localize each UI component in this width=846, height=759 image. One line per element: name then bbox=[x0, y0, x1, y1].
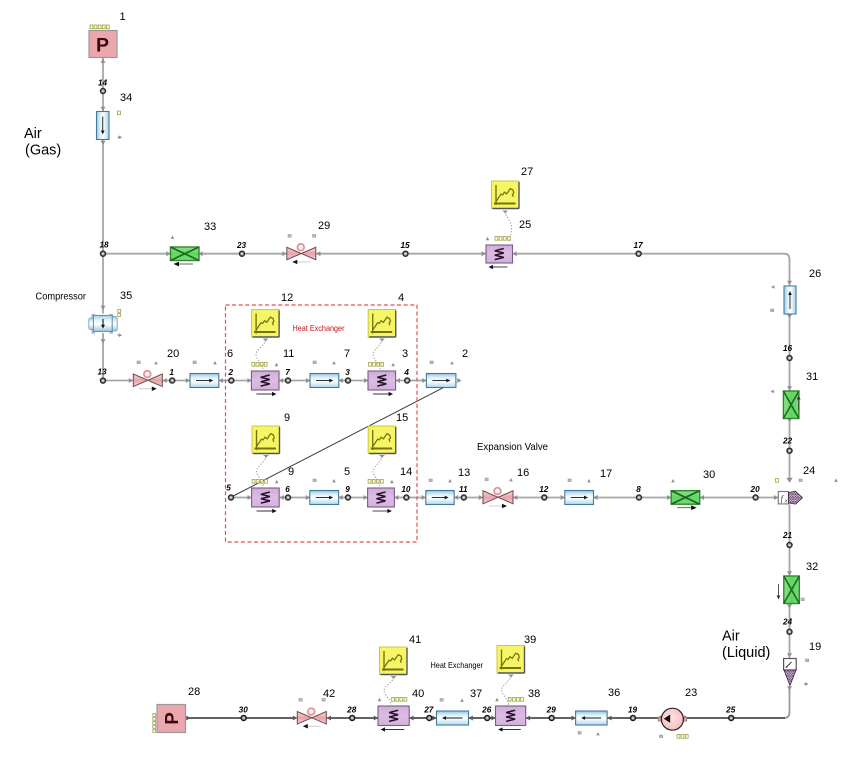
wire right column vertical bbox=[784, 315, 790, 718]
pipe 2 blue box bbox=[426, 348, 468, 388]
heater 3 purple box bbox=[368, 348, 408, 396]
node 4 bbox=[403, 368, 409, 383]
chart monitor 41 bbox=[380, 634, 422, 675]
node 8 bbox=[636, 485, 641, 500]
svg-text:13: 13 bbox=[458, 467, 470, 479]
svg-text:7: 7 bbox=[344, 348, 350, 360]
svg-text:26: 26 bbox=[481, 706, 492, 715]
svg-text:6: 6 bbox=[285, 485, 290, 494]
svg-text:30: 30 bbox=[239, 706, 249, 715]
svg-text:25: 25 bbox=[519, 219, 531, 231]
svg-text:29: 29 bbox=[546, 706, 557, 715]
dotted link 4-3 bbox=[373, 339, 384, 370]
svg-text:11: 11 bbox=[283, 348, 294, 360]
svg-text:22: 22 bbox=[782, 437, 793, 446]
svg-text:24: 24 bbox=[803, 465, 815, 477]
node 24b bbox=[782, 618, 793, 635]
node 20b bbox=[750, 485, 761, 500]
svg-text:29: 29 bbox=[318, 220, 330, 232]
node 27b bbox=[423, 706, 434, 721]
pipe 13 blue box bbox=[426, 467, 470, 505]
svg-text:12: 12 bbox=[539, 485, 549, 494]
pipe 17 blue box bbox=[565, 468, 612, 505]
svg-text:2: 2 bbox=[228, 368, 234, 377]
svg-text:36: 36 bbox=[608, 687, 620, 699]
wire port arrows bbox=[101, 59, 793, 721]
pressure source P1 bbox=[89, 11, 126, 58]
node 5 bbox=[226, 484, 233, 501]
svg-text:35: 35 bbox=[120, 290, 132, 302]
node 21 bbox=[782, 531, 793, 548]
svg-text:5: 5 bbox=[344, 466, 350, 478]
dotted link 39-38 bbox=[502, 675, 514, 705]
valve 20 bbox=[133, 348, 179, 391]
wire row1 segments bbox=[103, 380, 426, 382]
pump 23 bbox=[658, 687, 697, 738]
svg-text:13: 13 bbox=[97, 368, 107, 377]
svg-text:19: 19 bbox=[628, 706, 638, 715]
chart monitor 15 bbox=[368, 412, 408, 454]
heater 14 purple box bbox=[368, 466, 413, 513]
svg-text:40: 40 bbox=[412, 688, 424, 700]
svg-text:23: 23 bbox=[685, 687, 697, 699]
text Air (Liquid) bbox=[722, 629, 770, 662]
gas cooler 33 crossed box bbox=[171, 221, 217, 266]
node 1 bbox=[169, 368, 174, 383]
phase box 30 green crossed bbox=[671, 469, 838, 510]
svg-text:21: 21 bbox=[782, 531, 793, 540]
dotted link 12-11 bbox=[256, 339, 268, 370]
svg-text:x: x bbox=[784, 499, 788, 505]
svg-text:25: 25 bbox=[725, 706, 736, 715]
svg-text:39: 39 bbox=[524, 634, 536, 646]
svg-text:2: 2 bbox=[462, 348, 468, 360]
chart monitor 39 bbox=[497, 634, 536, 673]
node 7 bbox=[285, 368, 290, 383]
svg-text:31: 31 bbox=[806, 371, 818, 383]
svg-text:27: 27 bbox=[423, 706, 434, 715]
node 13c bbox=[97, 368, 107, 384]
chart monitor 12 bbox=[252, 292, 294, 337]
svg-text:9: 9 bbox=[345, 485, 350, 494]
node 19b bbox=[628, 706, 638, 721]
node 28b bbox=[346, 706, 357, 721]
chart monitor 4 bbox=[368, 292, 404, 337]
dotted link 9-9 bbox=[257, 456, 269, 488]
svg-text:8: 8 bbox=[636, 485, 641, 494]
svg-text:37: 37 bbox=[470, 688, 482, 700]
pressure sink P28 bbox=[153, 686, 200, 733]
svg-text:5: 5 bbox=[226, 484, 231, 493]
node 29b bbox=[546, 706, 557, 721]
pipe 37 blue box bbox=[437, 688, 483, 725]
svg-text:9: 9 bbox=[288, 466, 294, 478]
svg-text:Expansion Valve: Expansion Valve bbox=[477, 441, 548, 453]
text Air (Gas) bbox=[24, 126, 61, 159]
phase box 32 green crossed bbox=[777, 561, 819, 604]
node 17t bbox=[634, 241, 644, 256]
svg-text:34: 34 bbox=[120, 92, 132, 104]
svg-text:Air: Air bbox=[722, 629, 740, 645]
valve 29 bbox=[287, 220, 330, 264]
svg-text:26: 26 bbox=[809, 268, 821, 280]
wire row2 segments bbox=[231, 497, 778, 499]
svg-text:3: 3 bbox=[345, 368, 350, 377]
wire top row from node18 to corner bbox=[103, 254, 790, 286]
svg-text:24: 24 bbox=[782, 618, 793, 627]
dotted link 41-40 bbox=[384, 677, 396, 706]
chart monitor 9 bbox=[252, 412, 290, 454]
dotted link 27-25 bbox=[503, 211, 512, 243]
svg-text:16: 16 bbox=[517, 467, 529, 479]
svg-text:20: 20 bbox=[167, 348, 179, 360]
svg-text:Heat Exchanger: Heat Exchanger bbox=[293, 323, 345, 333]
svg-text:28: 28 bbox=[188, 686, 200, 698]
svg-text:1: 1 bbox=[169, 368, 174, 377]
svg-text:17: 17 bbox=[600, 468, 612, 480]
node 6b bbox=[285, 485, 290, 500]
svg-text:1: 1 bbox=[120, 11, 126, 23]
text Expansion Valve bbox=[477, 441, 548, 453]
svg-text:28: 28 bbox=[346, 706, 357, 715]
svg-text:30: 30 bbox=[703, 469, 715, 481]
compressor 35 bbox=[89, 290, 132, 337]
svg-text:20: 20 bbox=[750, 485, 761, 494]
pipe 7 blue box bbox=[310, 348, 350, 388]
svg-text:14: 14 bbox=[98, 79, 108, 88]
svg-text:17: 17 bbox=[634, 241, 644, 250]
heat exchanger dashed boundary box bbox=[226, 305, 418, 542]
node 11b bbox=[459, 485, 468, 500]
svg-text:15: 15 bbox=[396, 412, 408, 424]
svg-text:P: P bbox=[96, 35, 109, 57]
svg-text:38: 38 bbox=[528, 688, 540, 700]
phase box 31 green crossed bbox=[771, 371, 819, 419]
svg-text:4: 4 bbox=[403, 368, 409, 377]
svg-text:27: 27 bbox=[521, 166, 533, 178]
svg-text:Heat Exchanger: Heat Exchanger bbox=[431, 660, 484, 670]
node 23 bbox=[236, 241, 247, 256]
svg-text:16: 16 bbox=[783, 344, 793, 353]
wire bottom row segments bbox=[186, 717, 785, 719]
svg-text:23: 23 bbox=[236, 241, 247, 250]
node 9 bbox=[345, 485, 350, 500]
cooler 38 purple box bbox=[495, 688, 540, 732]
node 22 bbox=[782, 437, 793, 454]
cooler 25 purple box bbox=[486, 219, 532, 269]
svg-text:15: 15 bbox=[400, 241, 410, 250]
function block 24 with hatched arrow bbox=[776, 465, 816, 505]
svg-text:10: 10 bbox=[401, 485, 411, 494]
svg-text:4: 4 bbox=[398, 292, 404, 304]
node 14 bbox=[98, 79, 108, 94]
node 30b bbox=[239, 706, 249, 721]
text Compressor bbox=[36, 292, 87, 303]
liquid sink 19 gauge with hatched cone bbox=[784, 641, 822, 686]
heater 9 purple box bbox=[252, 466, 295, 513]
svg-text:14: 14 bbox=[400, 466, 412, 478]
svg-text:12: 12 bbox=[281, 292, 293, 304]
pipe 5 blue box bbox=[310, 466, 350, 505]
gas boundary box 34 bbox=[97, 92, 133, 140]
svg-text:Compressor: Compressor bbox=[36, 292, 87, 303]
dotted link 15-14 bbox=[373, 456, 384, 488]
wire diagonal from blue box2 output down to node5 bbox=[231, 381, 456, 497]
node 25b bbox=[725, 706, 736, 721]
svg-text:32: 32 bbox=[806, 561, 818, 573]
svg-text:(Gas): (Gas) bbox=[25, 143, 61, 159]
expansion valve 16 bbox=[483, 467, 529, 508]
cooler 40 purple box bbox=[378, 688, 425, 732]
node 18 bbox=[99, 241, 109, 257]
node 3 bbox=[345, 368, 350, 383]
gas boundary box 26 bbox=[771, 268, 822, 314]
svg-text:41: 41 bbox=[409, 634, 421, 646]
pipe 6 blue box bbox=[190, 348, 233, 388]
svg-text:42: 42 bbox=[323, 688, 335, 700]
svg-text:33: 33 bbox=[204, 221, 216, 233]
node 12b bbox=[539, 485, 549, 500]
chart monitor 27 bbox=[492, 166, 534, 209]
heater 11 purple box bbox=[251, 348, 294, 396]
svg-text:7: 7 bbox=[285, 368, 290, 377]
svg-text:P: P bbox=[161, 712, 182, 724]
valve 42 bbox=[297, 688, 335, 728]
node 16 bbox=[783, 344, 793, 361]
svg-text:Air: Air bbox=[24, 126, 42, 142]
svg-text:19: 19 bbox=[809, 641, 821, 653]
pipe 36 blue box bbox=[576, 687, 621, 735]
text Heat Exchanger bottom bbox=[431, 660, 484, 670]
svg-text:6: 6 bbox=[227, 348, 233, 360]
node 2 bbox=[228, 368, 234, 383]
wire P1 to valve20 vertical main line bbox=[102, 58, 104, 381]
svg-text:(Liquid): (Liquid) bbox=[722, 645, 770, 661]
svg-text:11: 11 bbox=[459, 485, 468, 494]
svg-text:3: 3 bbox=[402, 348, 408, 360]
node 15 bbox=[400, 241, 410, 256]
node 10 bbox=[401, 485, 411, 500]
node 26b bbox=[481, 706, 492, 721]
svg-text:9: 9 bbox=[284, 412, 290, 424]
svg-text:18: 18 bbox=[99, 241, 109, 250]
